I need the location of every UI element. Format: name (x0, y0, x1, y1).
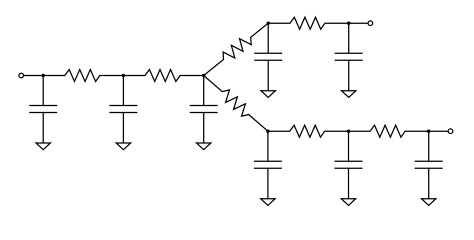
wire (348, 23, 350, 53)
wire (267, 23, 269, 53)
terminal output bottom (448, 129, 453, 134)
ground (341, 199, 355, 206)
ground (261, 91, 275, 98)
resistor R2 (123, 70, 203, 82)
resistor R6 (268, 125, 349, 137)
wire (24, 75, 44, 77)
wire (42, 113, 44, 144)
wire (267, 131, 269, 161)
wire (349, 22, 368, 24)
node C (202, 74, 205, 77)
resistor R4 (204, 76, 268, 132)
ground (342, 91, 356, 98)
terminal input (19, 73, 24, 78)
wire (348, 60, 350, 90)
resistor R5 (268, 17, 349, 29)
wire (122, 113, 124, 144)
resistor R3 (204, 23, 269, 75)
ground (36, 143, 50, 150)
terminal output top (368, 21, 373, 26)
wire (122, 76, 124, 106)
wire (348, 168, 350, 199)
wire (267, 168, 269, 199)
ground (261, 199, 275, 206)
resistor R1 (43, 70, 123, 82)
capacitor C8 (415, 161, 443, 168)
capacitor C6 (254, 161, 282, 168)
node G (347, 130, 350, 133)
ground (116, 143, 130, 150)
wire (428, 131, 430, 161)
node H (427, 130, 430, 133)
wire (429, 130, 449, 132)
capacitor C3 (190, 106, 218, 113)
wire (203, 113, 205, 144)
ground (422, 199, 436, 206)
resistor R7 (349, 125, 429, 137)
node B (122, 74, 125, 77)
capacitor C2 (109, 106, 137, 113)
node E (347, 22, 350, 25)
wire (348, 131, 350, 161)
node D (267, 22, 270, 25)
capacitor C7 (335, 161, 363, 168)
wire (42, 76, 44, 106)
wire (428, 168, 430, 199)
node F (266, 130, 269, 133)
capacitor C5 (335, 53, 363, 60)
wire (267, 60, 269, 90)
ground (197, 143, 211, 150)
wire (203, 76, 205, 106)
capacitor C4 (254, 53, 282, 60)
node A (42, 74, 45, 77)
capacitor C1 (29, 106, 57, 113)
